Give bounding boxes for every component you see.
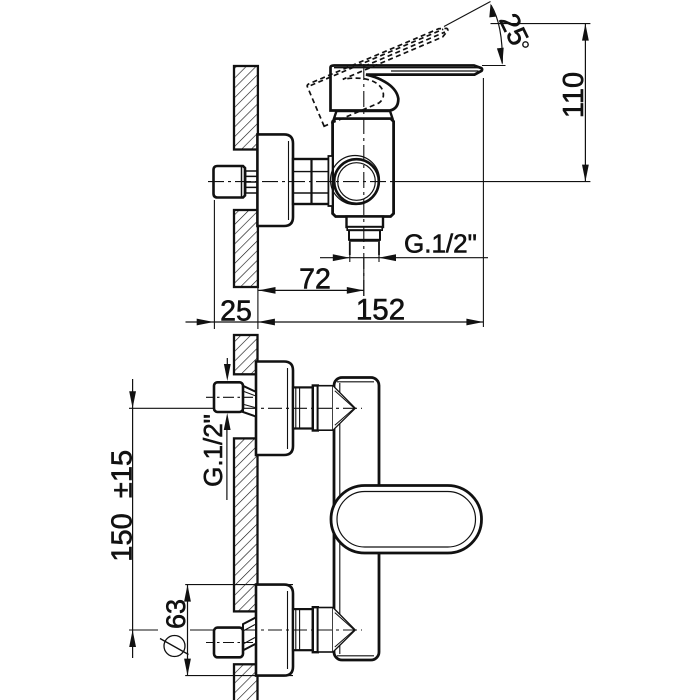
connector neck between escutcheon and body [293, 159, 333, 204]
outlet step 1 [347, 217, 384, 228]
upper inlet stub [293, 387, 313, 428]
vertical centerline top view [363, 64, 365, 300]
body tube (front view) [334, 378, 379, 661]
wall section upper segment (hatched) [234, 66, 258, 150]
svg-text:G.1/2": G.1/2" [198, 414, 228, 487]
cap circles on body [331, 156, 380, 205]
extension line outlet axis [363, 258, 365, 296]
25 deg dimension arc [491, 5, 502, 64]
lower inlet stub [293, 609, 313, 650]
svg-text:25: 25 [220, 296, 252, 328]
G 1/2 leader arrow below knob with underline [226, 429, 228, 500]
cartridge collar [334, 111, 393, 119]
svg-text:110: 110 [558, 72, 590, 118]
72 dimension line [259, 289, 364, 291]
bottom chained dimension line 25 and 152 [186, 321, 484, 323]
lower inlet cone into tube [318, 608, 356, 653]
wall section lower segment (hatched) [234, 210, 258, 287]
svg-text:±15: ±15 [107, 450, 139, 498]
upper inlet flange [313, 386, 318, 431]
svg-text:152: 152 [356, 294, 405, 327]
upper union knob [214, 382, 243, 412]
dia 63 extension lines [185, 585, 293, 676]
extension line knob face [213, 200, 215, 329]
lower inlet flange [313, 607, 318, 652]
threaded stem between knob and wall [246, 171, 258, 193]
G 1/2 leader arrow above knob [226, 358, 228, 368]
upper inlet cone into tube [318, 386, 356, 431]
wall section segment C (hatched) [234, 664, 258, 700]
escutcheon upper (front view) [256, 362, 293, 456]
outlet pipe G1/2 [350, 242, 379, 255]
outlet step 2 [347, 227, 382, 230]
wall union knob (side view) [214, 166, 246, 198]
lower eccentric taper [243, 617, 256, 650]
upper eccentric taper [243, 386, 256, 417]
110 dimension line [584, 24, 586, 182]
G 1/2 extension lines top view [350, 255, 379, 262]
150 +-15 dimension line [132, 379, 134, 658]
lower body centerline [129, 629, 214, 631]
svg-text:63: 63 [161, 599, 191, 629]
horizontal centerline top view [208, 181, 396, 183]
valve body (side view) [333, 119, 394, 217]
diameter symbol [160, 636, 189, 657]
wall section segment A (hatched) [234, 335, 258, 374]
lower union knob [214, 628, 243, 658]
boss strip on body left [328, 156, 332, 206]
escutcheon lower (front view) [256, 585, 293, 676]
dia 63 dimension line [187, 585, 189, 676]
upper knob centerline [206, 396, 253, 398]
svg-text:72: 72 [299, 264, 331, 296]
handle lever raised 25 deg (dashed phantom) [307, 26, 464, 127]
handle lever solid [331, 66, 483, 111]
svg-text:G.1/2": G.1/2" [404, 229, 477, 259]
svg-text:150: 150 [107, 513, 139, 561]
extension line lever end [482, 78, 484, 327]
extension line wall face [257, 287, 259, 329]
lever top extension line [482, 65, 506, 67]
25 deg arc arrowheads [489, 4, 496, 18]
G 1/2 dimension line top view [320, 257, 488, 259]
25 deg vertex line [444, 2, 491, 27]
wall section segment B (hatched) [234, 438, 258, 611]
upper body centerline [129, 407, 214, 409]
outlet nut [349, 230, 380, 240]
lower knob centerline [206, 642, 253, 644]
110 top reference line [491, 23, 591, 25]
escutcheon flange (side view) [257, 134, 293, 226]
loop handle (stadium shape) [331, 486, 482, 554]
